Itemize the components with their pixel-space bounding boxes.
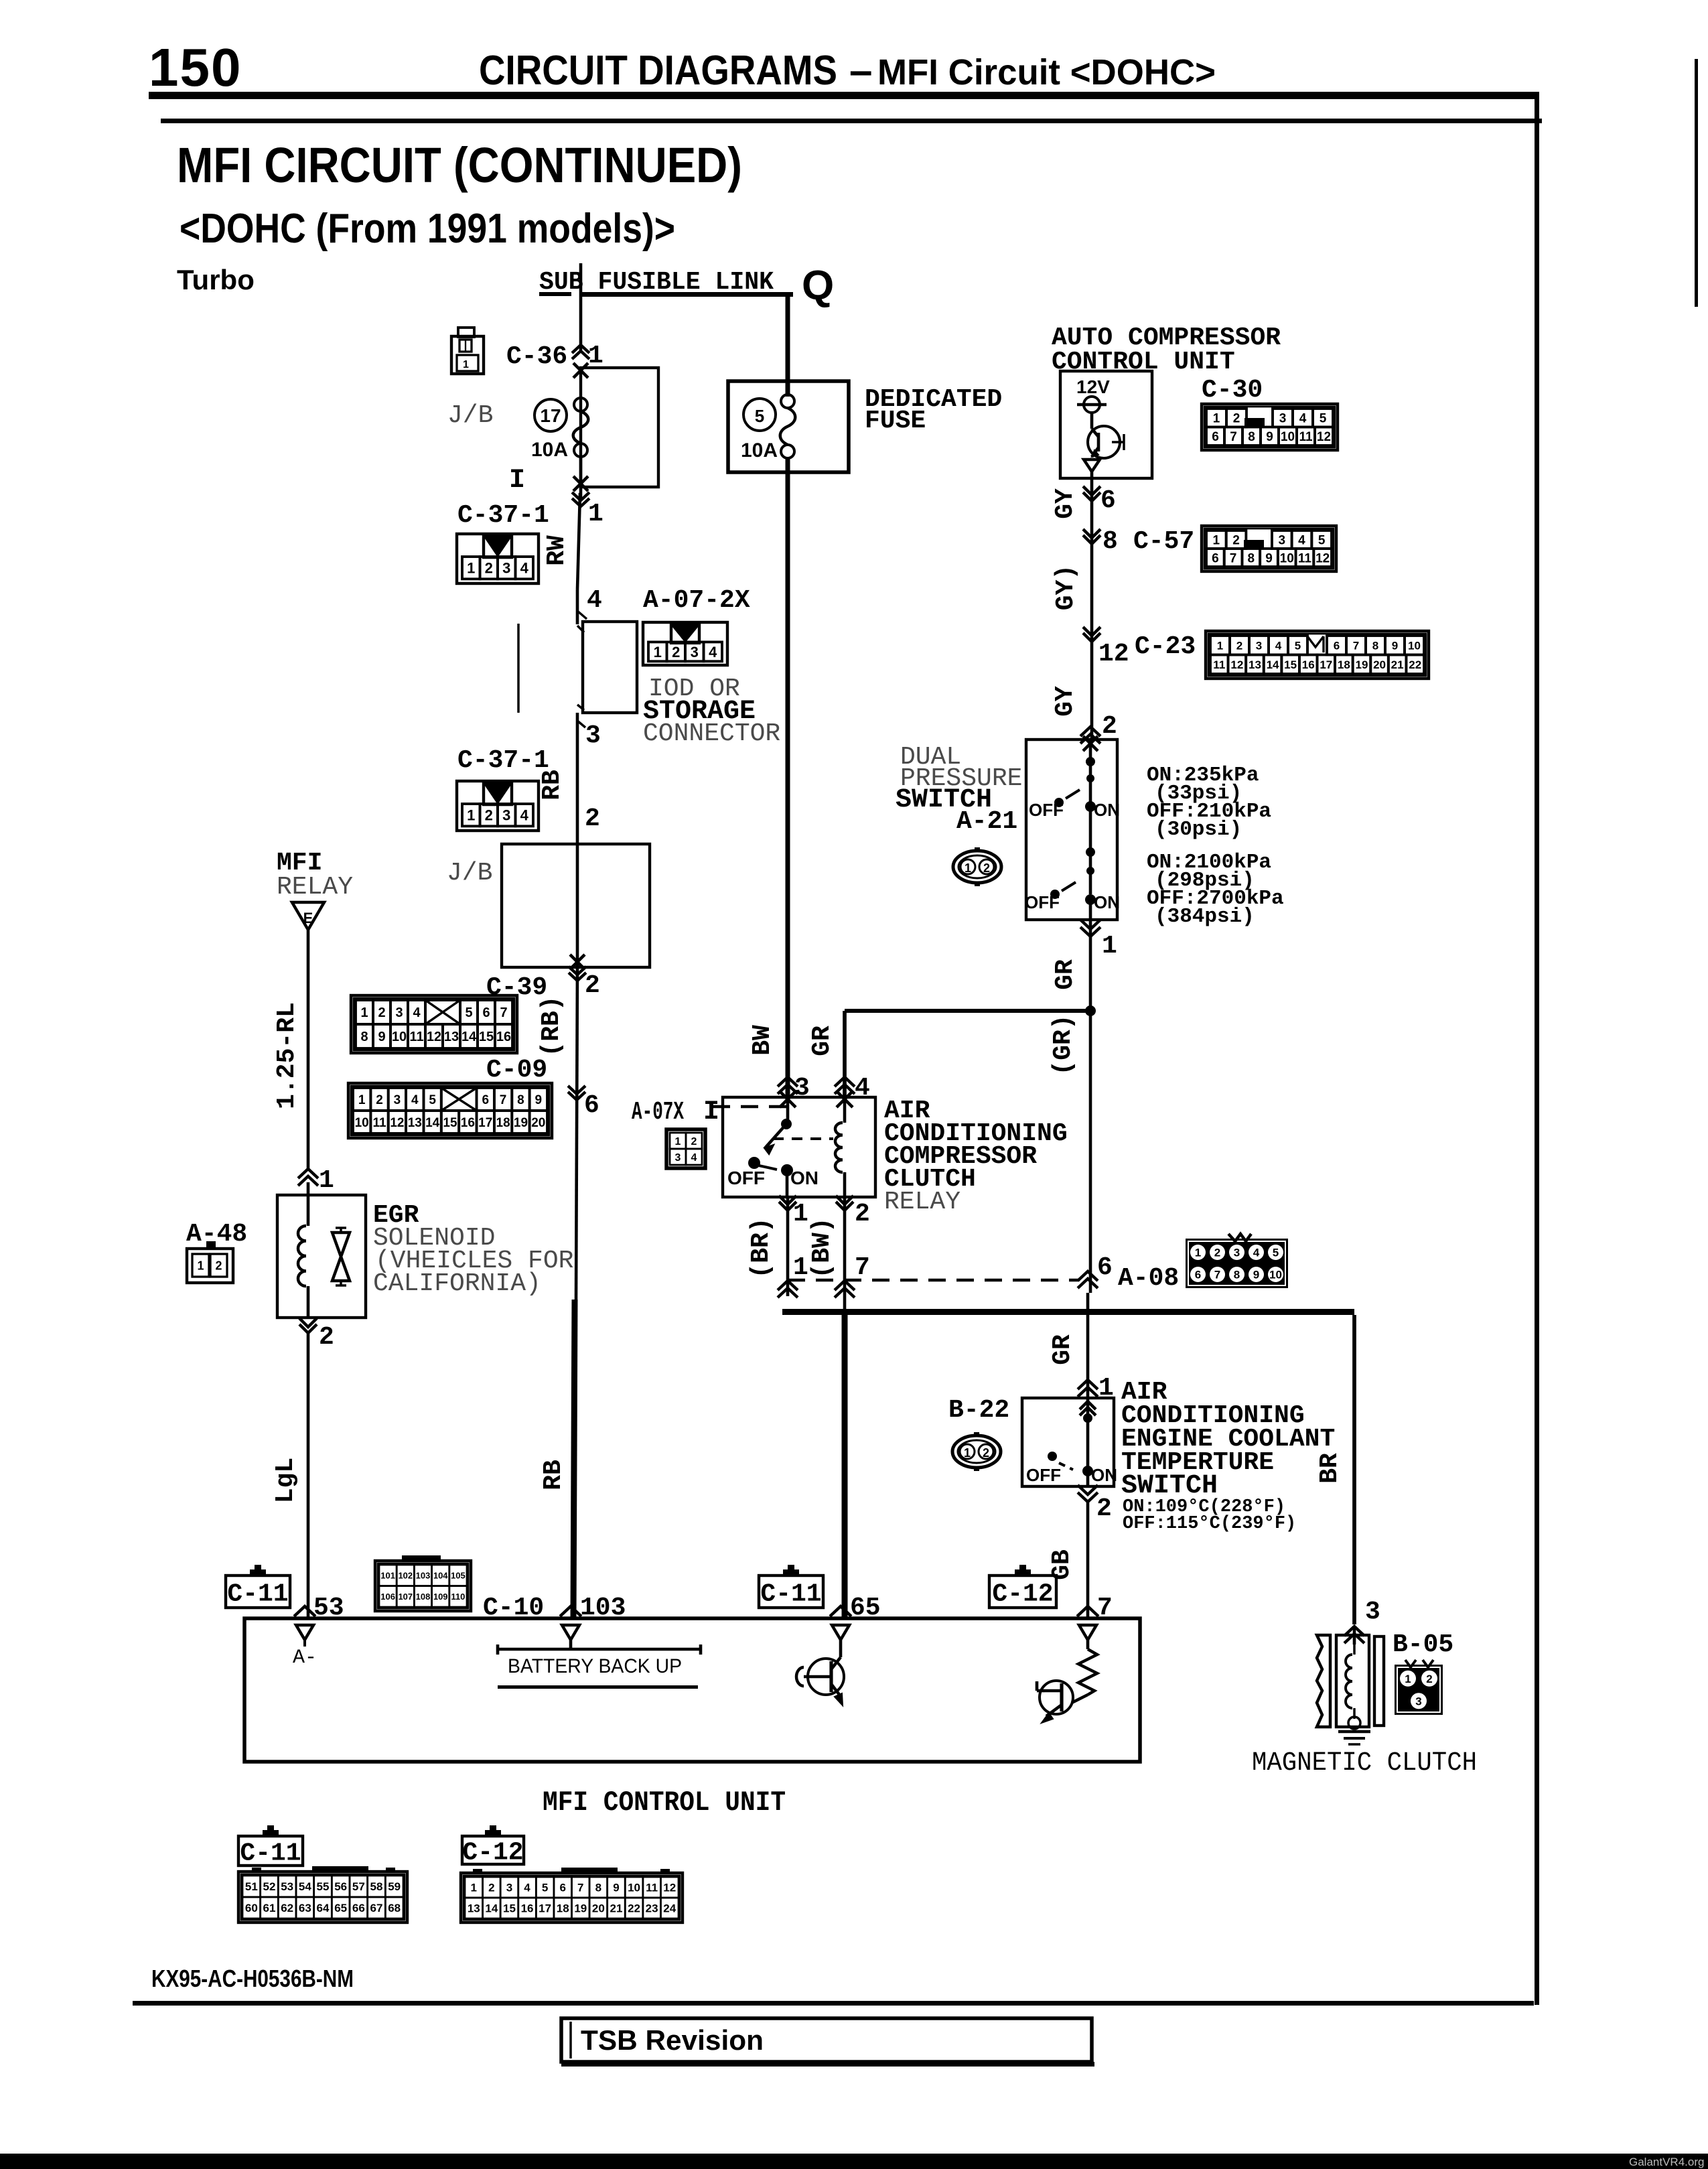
svg-text:C-10: C-10 [483,1594,544,1622]
svg-text:19: 19 [514,1116,528,1130]
svg-text:2: 2 [215,1259,222,1272]
svg-text:1: 1 [654,644,662,660]
svg-text:20: 20 [1373,658,1386,671]
svg-text:RW: RW [543,535,571,566]
svg-text:(30psi): (30psi) [1155,818,1242,841]
svg-text:1: 1 [588,500,603,529]
svg-text:A-21: A-21 [956,807,1017,836]
svg-text:I: I [703,1097,719,1127]
svg-text:10A: 10A [741,439,778,462]
svg-text:6: 6 [482,1093,489,1107]
svg-text:19: 19 [574,1902,587,1915]
svg-text:108: 108 [416,1592,431,1602]
svg-text:(RB): (RB) [537,995,566,1056]
svg-text:4: 4 [709,644,717,660]
svg-text:10: 10 [1281,430,1295,444]
svg-text:3: 3 [1365,1598,1380,1626]
svg-text:4: 4 [524,1882,530,1894]
svg-text:2: 2 [1232,533,1240,547]
svg-text:22: 22 [1409,658,1421,671]
svg-text:1: 1 [1405,1673,1411,1685]
svg-text:62: 62 [281,1902,293,1914]
svg-text:11: 11 [1299,430,1313,444]
svg-text:13: 13 [408,1116,422,1130]
svg-text:11: 11 [409,1030,423,1044]
svg-text:6: 6 [1334,639,1340,652]
svg-text:3: 3 [394,1093,401,1107]
svg-text:23: 23 [646,1902,658,1915]
svg-text:C-09: C-09 [486,1056,547,1084]
svg-text:8: 8 [1372,639,1378,652]
svg-text:12: 12 [663,1882,676,1894]
svg-text:1: 1 [1217,639,1223,652]
svg-text:5: 5 [755,406,764,426]
svg-text:53: 53 [281,1880,293,1893]
svg-text:6: 6 [1100,486,1116,515]
svg-text:2: 2 [983,1446,989,1460]
svg-text:3: 3 [1279,412,1287,426]
svg-text:105: 105 [451,1570,466,1580]
svg-text:8: 8 [1102,527,1118,556]
svg-text:15: 15 [479,1030,494,1044]
svg-text:CIRCUIT DIAGRAMS: CIRCUIT DIAGRAMS [479,48,837,94]
svg-text:24: 24 [663,1902,676,1915]
svg-text:2: 2 [488,1882,494,1894]
svg-text:10: 10 [1408,639,1421,652]
svg-text:1: 1 [467,560,475,577]
svg-text:7: 7 [500,1005,507,1020]
svg-text:18: 18 [1338,658,1350,671]
svg-text:21: 21 [610,1902,622,1915]
svg-text:1: 1 [1213,533,1220,547]
svg-text:4: 4 [587,586,602,615]
svg-text:66: 66 [352,1902,365,1914]
svg-text:GR: GR [1048,1334,1077,1365]
svg-text:4: 4 [691,1152,697,1164]
svg-text:7: 7 [855,1253,870,1282]
svg-text:64: 64 [317,1902,330,1914]
svg-text:9: 9 [1253,1269,1259,1281]
svg-text:(384psi): (384psi) [1155,905,1255,928]
svg-text:OFF: OFF [1026,1465,1061,1485]
svg-text:11: 11 [646,1882,658,1894]
svg-text:MAGNETIC CLUTCH: MAGNETIC CLUTCH [1252,1748,1477,1778]
svg-text:MFI CIRCUIT (CONTINUED): MFI CIRCUIT (CONTINUED) [177,137,742,193]
svg-text:5: 5 [1318,533,1326,547]
svg-text:10: 10 [392,1030,407,1044]
svg-text:12: 12 [1315,551,1330,565]
svg-text:2: 2 [585,804,600,833]
svg-text:12: 12 [390,1116,404,1130]
svg-text:3: 3 [502,807,510,824]
svg-text:2: 2 [1096,1494,1112,1523]
svg-text:C-37-1: C-37-1 [457,501,549,530]
svg-text:7: 7 [577,1882,583,1894]
svg-text:21: 21 [1391,658,1404,671]
svg-text:1: 1 [1195,1247,1201,1259]
svg-text:A-: A- [293,1647,317,1669]
svg-text:C-11: C-11 [227,1580,288,1608]
svg-text:15: 15 [503,1902,516,1915]
svg-text:1: 1 [463,359,469,370]
svg-text:LgL: LgL [271,1458,300,1503]
svg-text:56: 56 [334,1880,347,1893]
svg-text:1.25-RL: 1.25-RL [273,1002,301,1109]
svg-text:8: 8 [517,1093,524,1107]
svg-text:5: 5 [542,1882,548,1894]
svg-text:1: 1 [319,1166,334,1195]
svg-text:17: 17 [1320,658,1332,671]
svg-text:4: 4 [1253,1247,1260,1259]
svg-text:10: 10 [628,1882,640,1894]
svg-text:GY): GY) [1052,565,1080,610]
svg-text:2: 2 [378,1005,385,1020]
svg-text:3: 3 [506,1882,512,1894]
svg-text:4: 4 [520,560,529,577]
svg-text:4: 4 [411,1093,419,1107]
svg-text:ON: ON [1094,892,1120,912]
svg-text:RB: RB [538,770,567,800]
svg-text:11: 11 [1213,658,1225,671]
svg-text:1: 1 [588,342,603,370]
svg-text:13: 13 [444,1030,459,1044]
svg-text:103: 103 [416,1570,431,1580]
svg-text:9: 9 [378,1030,385,1044]
svg-text:3: 3 [1279,533,1286,547]
svg-text:12V: 12V [1076,376,1110,397]
svg-text:1: 1 [1213,412,1220,426]
svg-text:3: 3 [502,560,510,577]
svg-text:107: 107 [398,1592,413,1602]
svg-text:8: 8 [1248,430,1255,444]
svg-text:10: 10 [1269,1269,1282,1281]
svg-text:60: 60 [245,1902,258,1914]
svg-text:9: 9 [1266,430,1273,444]
svg-text:67: 67 [370,1902,383,1914]
svg-text:2: 2 [485,560,493,577]
svg-text:3: 3 [675,1152,681,1164]
svg-text:16: 16 [1302,658,1315,671]
svg-text:9: 9 [1265,551,1273,565]
svg-text:15: 15 [1284,658,1297,671]
svg-text:(BR): (BR) [747,1217,776,1278]
svg-text:ON: ON [1094,800,1120,820]
svg-text:<DOHC (From 1991 models)>: <DOHC (From 1991 models)> [180,206,675,252]
svg-text:54: 54 [299,1880,311,1893]
svg-text:110: 110 [451,1592,465,1602]
svg-text:22: 22 [628,1902,640,1915]
svg-text:3: 3 [1256,639,1262,652]
svg-text:J/B: J/B [447,401,493,430]
svg-text:52: 52 [263,1880,276,1893]
svg-text:GR: GR [1051,959,1080,990]
svg-text:3: 3 [691,644,699,660]
svg-text:Turbo: Turbo [177,264,255,295]
svg-text:C-12: C-12 [462,1838,523,1867]
svg-text:GY: GY [1051,686,1080,717]
svg-text:12: 12 [427,1030,441,1044]
svg-text:1: 1 [467,807,475,824]
svg-text:5: 5 [1320,412,1327,426]
svg-text:(BW): (BW) [808,1217,837,1278]
svg-text:3: 3 [1234,1247,1240,1259]
svg-text:58: 58 [370,1880,383,1893]
svg-text:OFF:115°C(239°F): OFF:115°C(239°F) [1123,1514,1296,1534]
svg-text:2: 2 [585,971,600,1000]
svg-text:TSB Revision: TSB Revision [581,2024,764,2056]
svg-text:4: 4 [1275,639,1282,652]
svg-text:2: 2 [1426,1673,1432,1685]
svg-text:ON: ON [790,1168,819,1188]
svg-text:14: 14 [461,1030,477,1044]
svg-text:15: 15 [443,1116,457,1130]
svg-text:1: 1 [471,1882,477,1894]
svg-text:(GR): (GR) [1049,1014,1078,1075]
svg-text:Q: Q [802,263,834,309]
svg-text:2: 2 [855,1200,870,1229]
svg-text:20: 20 [531,1116,545,1130]
svg-text:B-22: B-22 [948,1396,1009,1425]
svg-text:61: 61 [263,1902,276,1914]
svg-text:GalantVR4.org: GalantVR4.org [1629,2156,1704,2168]
svg-text:FUSE: FUSE [865,407,926,435]
svg-text:6: 6 [559,1882,565,1894]
svg-text:101: 101 [380,1570,395,1580]
svg-text:J/B: J/B [447,859,492,888]
svg-text:2: 2 [1233,412,1240,426]
svg-text:10: 10 [1280,551,1294,565]
svg-text:5: 5 [1273,1247,1279,1259]
svg-text:BW: BW [748,1025,777,1056]
svg-text:4: 4 [1299,412,1307,426]
svg-text:OFF: OFF [727,1168,765,1188]
svg-text:16: 16 [461,1116,475,1130]
svg-text:55: 55 [317,1880,330,1893]
svg-text:C-36: C-36 [506,342,567,371]
svg-text:13: 13 [468,1902,480,1915]
svg-text:7: 7 [1353,639,1359,652]
svg-text:ON: ON [1091,1465,1117,1485]
svg-text:18: 18 [557,1902,569,1915]
svg-text:1: 1 [197,1259,204,1272]
svg-text:BATTERY BACK UP: BATTERY BACK UP [508,1655,682,1677]
svg-text:1: 1 [358,1093,366,1107]
svg-text:53: 53 [313,1594,344,1622]
svg-text:8: 8 [1247,551,1255,565]
svg-text:MFI CONTROL UNIT: MFI CONTROL UNIT [543,1787,786,1819]
svg-text:10: 10 [355,1116,369,1130]
svg-text:1: 1 [1102,932,1117,961]
svg-text:3: 3 [1415,1695,1421,1707]
svg-text:GR: GR [808,1026,837,1056]
svg-text:5: 5 [1295,639,1301,652]
svg-text:A-48: A-48 [186,1220,247,1249]
svg-text:1: 1 [793,1253,808,1282]
svg-text:A-07X: A-07X [632,1098,684,1127]
svg-text:102: 102 [398,1570,413,1580]
svg-text:16: 16 [521,1902,534,1915]
svg-text:12: 12 [1317,430,1331,444]
svg-text:14: 14 [485,1902,498,1915]
svg-text:59: 59 [388,1880,401,1893]
svg-text:5: 5 [429,1093,436,1107]
svg-text:6: 6 [1212,551,1219,565]
svg-text:14: 14 [1267,658,1279,671]
svg-text:2: 2 [319,1323,334,1352]
svg-text:2: 2 [1102,712,1117,741]
svg-text:OFF: OFF [1029,800,1064,820]
svg-text:C-23: C-23 [1135,632,1196,661]
svg-text:B-05: B-05 [1393,1630,1453,1659]
svg-text:E: E [303,910,313,926]
svg-text:6: 6 [482,1005,490,1020]
svg-text:9: 9 [1392,639,1398,652]
svg-text:12: 12 [1230,658,1243,671]
svg-text:2: 2 [1236,639,1242,652]
svg-text:C-12: C-12 [992,1580,1053,1608]
svg-text:17: 17 [539,1902,551,1915]
svg-text:13: 13 [1249,658,1261,671]
svg-text:2: 2 [485,807,493,824]
svg-text:–: – [849,48,872,94]
svg-text:106: 106 [380,1592,395,1602]
svg-text:3: 3 [585,721,601,750]
svg-text:18: 18 [496,1116,510,1130]
svg-text:7: 7 [1214,1269,1220,1281]
svg-text:12: 12 [1098,640,1129,669]
svg-text:C-37-1: C-37-1 [457,746,549,775]
svg-text:1: 1 [965,861,971,875]
svg-text:RB: RB [539,1460,568,1490]
svg-text:4: 4 [413,1005,421,1020]
svg-text:I: I [509,466,525,496]
svg-text:6: 6 [1212,430,1219,444]
svg-text:6: 6 [1097,1253,1113,1282]
svg-text:2: 2 [983,861,990,875]
svg-text:3: 3 [395,1005,403,1020]
svg-text:109: 109 [433,1592,448,1602]
svg-text:103: 103 [580,1594,626,1622]
svg-text:51: 51 [245,1880,258,1893]
svg-text:10A: 10A [531,439,568,461]
svg-text:C-11: C-11 [240,1839,301,1868]
svg-text:RELAY: RELAY [884,1188,960,1216]
svg-text:BR: BR [1315,1453,1344,1484]
svg-text:1: 1 [675,1136,681,1147]
svg-text:63: 63 [299,1902,311,1914]
svg-text:CONNECTOR: CONNECTOR [643,719,780,748]
svg-text:1: 1 [793,1200,808,1229]
svg-text:GY: GY [1051,488,1080,519]
svg-text:8: 8 [595,1882,601,1894]
svg-text:150: 150 [149,38,242,97]
svg-text:CALIFORNIA): CALIFORNIA) [373,1269,541,1298]
svg-text:57: 57 [352,1880,365,1893]
svg-text:65: 65 [850,1594,881,1622]
svg-text:2: 2 [376,1093,383,1107]
svg-text:8: 8 [360,1030,368,1044]
svg-text:RELAY: RELAY [277,873,353,902]
svg-text:OFF: OFF [1025,892,1060,912]
svg-text:4: 4 [1298,533,1305,547]
svg-text:1: 1 [360,1005,368,1020]
svg-text:7: 7 [1230,430,1237,444]
svg-text:6: 6 [584,1091,599,1120]
svg-text:C-30: C-30 [1202,376,1263,405]
svg-text:9: 9 [535,1093,543,1107]
svg-text:17: 17 [478,1116,492,1130]
svg-text:2: 2 [672,644,680,660]
svg-text:MFI Circuit <DOHC>: MFI Circuit <DOHC> [877,52,1216,92]
svg-text:16: 16 [496,1030,511,1044]
svg-text:68: 68 [388,1902,401,1914]
svg-text:6: 6 [1195,1269,1201,1281]
svg-text:19: 19 [1355,658,1368,671]
svg-text:65: 65 [334,1902,347,1914]
svg-text:A-08: A-08 [1118,1264,1179,1293]
svg-text:11: 11 [1298,551,1312,565]
svg-text:4: 4 [520,807,529,824]
svg-text:5: 5 [465,1005,472,1020]
svg-text:C-57: C-57 [1133,527,1194,556]
svg-text:8: 8 [1234,1269,1240,1281]
svg-text:KX95-AC-H0536B-NM: KX95-AC-H0536B-NM [151,1965,354,1992]
svg-text:7: 7 [1230,551,1237,565]
svg-text:2: 2 [1214,1247,1220,1259]
svg-text:1: 1 [964,1446,971,1460]
svg-text:9: 9 [613,1882,619,1894]
svg-text:20: 20 [592,1902,605,1915]
svg-text:2: 2 [691,1136,697,1147]
svg-text:7: 7 [500,1093,507,1107]
svg-text:14: 14 [425,1116,440,1130]
svg-text:17: 17 [540,405,561,426]
svg-text:104: 104 [433,1570,448,1580]
svg-text:A-07-2X: A-07-2X [643,586,750,615]
svg-text:11: 11 [372,1116,386,1130]
svg-text:C-11: C-11 [760,1580,821,1608]
